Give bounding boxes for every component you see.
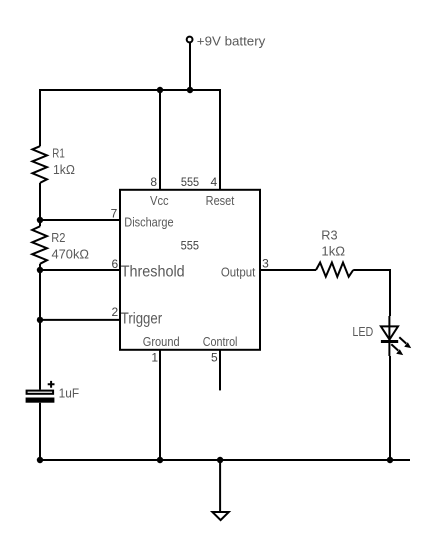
svg-text:470kΩ: 470kΩ: [52, 247, 90, 261]
svg-text:555: 555: [181, 239, 200, 253]
wire battery stub: [189, 43, 191, 90]
capacitor C1 top plate: [27, 391, 53, 394]
resistor R1: [32, 146, 47, 183]
LED D1 arrow 1: [399, 337, 411, 348]
wire R3 to LED branch (upper): [353, 270, 390, 316]
wire pin 3 (Output): [260, 269, 316, 271]
junction dot left/bottom rail: [37, 457, 43, 463]
svg-text:Vcc: Vcc: [150, 193, 169, 208]
svg-text:Reset: Reset: [206, 193, 235, 208]
svg-text:1uF: 1uF: [59, 387, 80, 401]
wire R1 to R2: [39, 183, 41, 226]
LED D1 triangle: [381, 326, 398, 339]
junction dot ground/bottom rail: [217, 457, 223, 463]
svg-text:Output: Output: [221, 266, 256, 280]
junction dot left/pin2: [37, 317, 43, 323]
LED D1 arrow 2: [391, 344, 403, 355]
wire pin 8 drop (Vcc): [159, 90, 161, 190]
svg-text:R2: R2: [51, 231, 65, 245]
junction dot LED/bottom rail: [387, 457, 393, 463]
svg-text:3: 3: [262, 257, 269, 271]
svg-text:6: 6: [112, 257, 119, 271]
svg-text:5: 5: [211, 350, 218, 364]
junction dot pin1/bottom rail: [157, 457, 163, 463]
ground symbol: [212, 512, 228, 520]
svg-text:7: 7: [111, 207, 118, 221]
wire pin 5 (Control) stub: [219, 350, 221, 391]
junction dot left/pin7: [37, 217, 43, 223]
wire R2 to capacitor: [39, 264, 41, 390]
svg-text:1: 1: [151, 350, 158, 364]
wire pin 6 (Threshold): [40, 269, 120, 271]
capacitor C1 bottom plate: [26, 398, 55, 403]
op-amp U1 555 IC body: [120, 190, 260, 350]
resistor R2: [32, 226, 47, 263]
svg-text:1kΩ: 1kΩ: [53, 163, 75, 177]
svg-text:+9V battery: +9V battery: [197, 33, 266, 48]
svg-text:Threshold: Threshold: [121, 264, 185, 281]
svg-text:2: 2: [112, 305, 119, 319]
wire pin 7 (Discharge): [40, 219, 120, 221]
svg-text:4: 4: [211, 175, 218, 189]
wire pin 2 (Trigger): [40, 319, 120, 321]
svg-text:LED: LED: [352, 325, 373, 339]
wire top rail with pin 4 drop (Reset): [40, 90, 220, 190]
junction dot pin8/top rail: [157, 87, 163, 93]
wire pin 1 (Ground): [159, 350, 161, 460]
junction dot battery/top rail: [187, 87, 193, 93]
battery terminal: [187, 37, 193, 43]
wire LED internal lead: [388, 316, 390, 356]
wire ground stub: [219, 460, 221, 512]
svg-text:Discharge: Discharge: [124, 214, 173, 229]
svg-text:R3: R3: [321, 228, 337, 242]
LED D1 cathode bar: [381, 340, 398, 343]
capacitor C1 plus sign: [48, 381, 55, 388]
svg-text:R1: R1: [52, 147, 65, 161]
junction dot left/pin6: [37, 267, 43, 273]
svg-text:1kΩ: 1kΩ: [321, 245, 345, 259]
resistor R3: [316, 263, 353, 277]
svg-text:Control: Control: [203, 334, 238, 349]
svg-text:8: 8: [150, 175, 157, 189]
svg-text:555: 555: [181, 175, 199, 189]
svg-text:Trigger: Trigger: [121, 310, 162, 327]
wire LED to bottom rail: [389, 356, 391, 460]
svg-text:Ground: Ground: [143, 334, 180, 349]
wire capacitor to bottom rail and bottom rail: [40, 403, 410, 460]
